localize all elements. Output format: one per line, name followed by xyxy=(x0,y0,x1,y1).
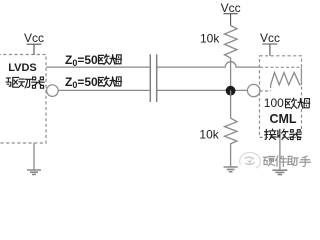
Vcc terminal (right, above CML box) xyxy=(262,44,277,56)
wire: bottom differential line (left segment) xyxy=(58,89,150,91)
label Z0=50 ohm (bottom line) xyxy=(65,75,122,90)
svg-text:Vcc: Vcc xyxy=(221,1,241,15)
svg-text:CML: CML xyxy=(269,112,296,126)
coupling capacitor plates (both lines) xyxy=(150,54,156,102)
svg-text:100: 100 xyxy=(264,96,284,110)
svg-text:Vcc: Vcc xyxy=(260,31,280,45)
wire: top differential line (left segment) xyxy=(46,66,150,68)
watermark logo circle xyxy=(240,152,261,168)
svg-text:Z0=50: Z0=50 xyxy=(65,75,98,90)
ground (below CML box) xyxy=(272,170,287,174)
接收器 label xyxy=(265,129,301,140)
ground (below bottom 10k) xyxy=(224,167,238,172)
resistor 100 ohm (internal termination) xyxy=(271,73,300,86)
100欧姆 label xyxy=(264,96,310,110)
resistor 10k (bottom pull-down) xyxy=(225,90,238,166)
wire: LVDS box to ground xyxy=(33,143,35,170)
watermark text 硬件助手 xyxy=(263,156,310,167)
label Z0=50 ohm (top line) xyxy=(65,53,122,68)
Vcc terminal (left, above LVDS box) xyxy=(27,44,42,55)
wire: top differential line (right segment) with hop over vertical xyxy=(157,62,260,67)
ground (below LVDS box) xyxy=(27,170,41,174)
svg-text:LVDS: LVDS xyxy=(8,62,37,74)
inverting output bubble on LVDS box xyxy=(47,85,59,97)
input bubble on CML box (bottom line) xyxy=(248,84,260,96)
svg-text:Z0=50: Z0=50 xyxy=(65,53,98,68)
LVDS driver box (dashed, clipped at left edge) xyxy=(0,55,46,144)
internal dashed wiring inside CML box xyxy=(260,67,301,91)
resistor 10k (top pull-up) xyxy=(225,26,238,59)
svg-text:Vcc: Vcc xyxy=(24,31,44,45)
CML receiver box (dashed) xyxy=(260,56,302,138)
wire: bottom differential line (right segment) xyxy=(157,89,248,91)
wire: CML box to ground xyxy=(279,137,281,170)
Vcc terminal (middle, above top 10k) xyxy=(224,14,238,26)
junction node (filled dot) xyxy=(226,86,236,96)
svg-text:10k: 10k xyxy=(200,31,220,45)
wire: vertical from top 10k down to junction xyxy=(230,58,232,90)
svg-text:10k: 10k xyxy=(199,127,219,141)
驱动器 label xyxy=(6,77,44,88)
